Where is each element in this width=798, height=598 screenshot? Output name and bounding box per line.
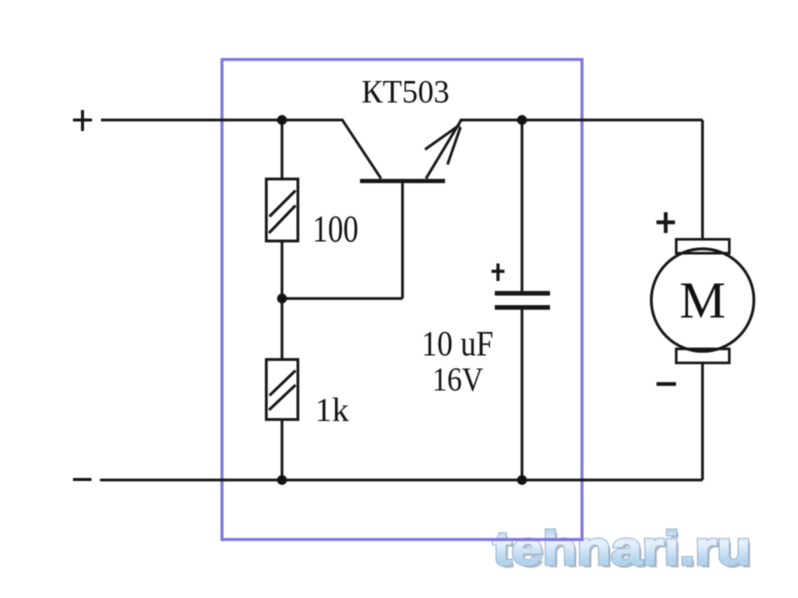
resistor R1 hatch stripe 1 [270,191,296,217]
motor M1 circle [651,249,754,352]
capacitor C1 bottom plate [495,305,550,310]
transistor Q1 collector lead [342,120,381,179]
motor M1 polarity plus [657,212,676,233]
node junction bottom right [517,475,527,485]
motor M1 top brush [676,239,729,253]
svg-text:КТ503: КТ503 [362,75,450,111]
wire top right [460,119,703,122]
wire capacitor top [521,120,524,292]
transistor Q1 base lead [401,183,404,299]
svg-text:M: M [679,273,725,330]
resistor R1 100 body [266,179,298,241]
wire node B to R2 [281,299,284,360]
node junction top right [517,115,527,125]
motor M1 polarity minus [657,382,677,386]
node junction top left [277,115,287,125]
wire junction to R1 [281,120,284,179]
wire bottom [100,479,703,482]
node junction bottom left [277,475,287,485]
wire R2 to bottom [281,420,284,481]
resistor R2 1k body [266,360,298,420]
resistor R2 hatch stripe 1 [270,371,296,396]
resistor R1 hatch stripe 2 [269,206,296,234]
watermark tehnari.ru [493,522,754,578]
wire R1 to node B [281,241,284,299]
svg-text:100: 100 [313,209,359,251]
plus terminal left [73,110,92,131]
svg-text:1k: 1k [315,392,349,429]
svg-text:tehnari.ru: tehnari.ru [493,522,751,575]
motor M1 bottom brush [676,349,729,363]
svg-text:10 uF: 10 uF [422,324,494,364]
transistor Q1 emitter arrow line B [448,127,461,165]
capacitor C1 polarity plus [492,264,505,282]
resistor R2 hatch stripe 2 [269,385,296,410]
wire right side upper [701,120,704,240]
wire right side lower [701,362,704,480]
wire top left [101,119,343,122]
capacitor C1 top plate [495,291,550,296]
minus terminal left [73,478,92,481]
transistor Q1 base bar [360,179,445,183]
enclosure box [222,60,582,540]
transistor Q1 emitter lead [426,120,462,179]
wire node B horizontal [282,297,403,300]
svg-text:16V: 16V [432,362,483,399]
node junction middle B [277,294,287,304]
wire capacitor bottom [521,310,524,481]
transistor Q1 emitter arrow line A [425,125,460,150]
